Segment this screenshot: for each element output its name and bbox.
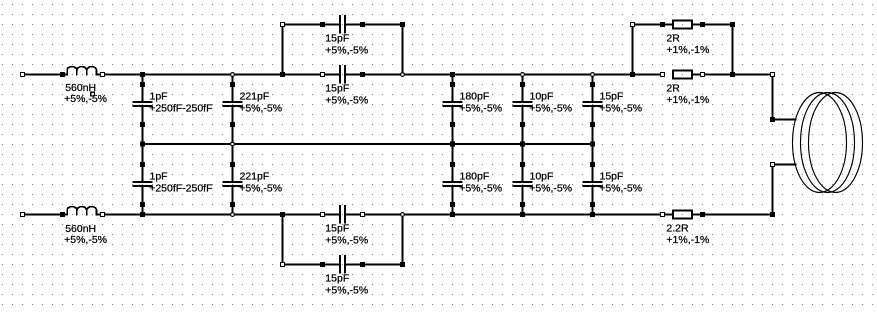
capacitor C13 15pF plates (on bottom rail) [339, 205, 341, 224]
svg-text:+5%,-5%: +5%,-5% [325, 235, 368, 247]
pin L1 right [101, 73, 105, 77]
pin C5 right [360, 72, 365, 77]
svg-text:2.2R: 2.2R [666, 222, 689, 234]
capacitor C8 221pF lead bottom [232, 187, 234, 215]
svg-text:180pF: 180pF [460, 170, 490, 182]
pin R2 left [660, 22, 665, 27]
capacitor C2 221pF plates [223, 101, 243, 103]
svg-text:2R: 2R [666, 82, 680, 94]
wire bottom branch right riser [402, 215, 404, 265]
wire bottom branch left riser [282, 215, 284, 265]
pin C1 top [140, 82, 145, 87]
inductor L1 560nH [63, 67, 103, 75]
pin C2 top [230, 82, 235, 87]
wire top branch right riser [402, 25, 404, 75]
node bottom rail / C8 [231, 213, 235, 217]
pin C4 top [520, 82, 525, 87]
junction bottom rail / C12 [590, 212, 595, 217]
capacitor C7 1pF lead bottom [142, 187, 144, 215]
junction bottom rail / C10 [520, 212, 525, 217]
wire to speaker top riser [772, 75, 774, 120]
node top rail / C2 [231, 73, 235, 77]
capacitor C6 15pF plates (top branch) [339, 15, 341, 34]
wire top rail: L1 to C5 plate [103, 74, 340, 76]
junction top rail / C3 [450, 72, 455, 77]
capacitor C5 15pF plates (on top rail) [339, 65, 341, 84]
svg-text:221pF: 221pF [240, 90, 270, 102]
svg-text:10pF: 10pF [530, 170, 554, 182]
svg-text:+1%,-1%: +1%,-1% [666, 234, 709, 246]
wire bottom rail: terminal to L2 [23, 214, 63, 216]
wire C1 1pF to C7 1pF [142, 107, 144, 181]
wire to speaker top stub [773, 119, 797, 121]
wire top branch left [283, 24, 340, 26]
terminal node In+ [21, 73, 25, 77]
pin C12 bottom [590, 202, 595, 207]
capacitor C7 1pF plates [133, 181, 153, 183]
node top rail / C11 [591, 73, 595, 77]
svg-text:+5%,-5%: +5%,-5% [529, 183, 572, 195]
capacitor C9 180pF lead bottom [452, 187, 454, 215]
pin R3 right [700, 212, 705, 217]
wire bottom rail: C13 to R3 [346, 214, 672, 216]
wire resistor branch right riser [732, 25, 734, 75]
svg-text:2R: 2R [666, 32, 680, 44]
svg-text:221pF: 221pF [240, 170, 270, 182]
wire resistor branch top right [693, 24, 733, 26]
capacitor C3 180pF lead top [452, 75, 454, 102]
svg-text:15pF: 15pF [325, 83, 349, 95]
capacitor C10 10pF lead bottom [522, 187, 524, 215]
svg-text:15pF: 15pF [325, 223, 349, 235]
capacitor C12 15pF lead bottom [592, 187, 594, 215]
junction node top rail / C1 [140, 72, 145, 77]
junction bottom branch / rail [280, 212, 285, 217]
corner R branch left [631, 23, 635, 27]
svg-text:+5%,-5%: +5%,-5% [325, 45, 368, 57]
corner bottom branch right [400, 262, 405, 267]
svg-text:+5%,-5%: +5%,-5% [239, 183, 282, 195]
pin C3 top [450, 82, 455, 87]
resistor R1 2R body (on top rail) [673, 71, 692, 79]
pin R1 left [661, 73, 665, 77]
capacitor C1 1pF lead top [142, 75, 144, 102]
junction middle line / C11-C12 [590, 142, 595, 147]
svg-text:+5%,-5%: +5%,-5% [239, 103, 282, 115]
capacitor C14 15pF plates (bottom branch) [339, 255, 341, 274]
wire top rail: terminal to L1 [23, 74, 63, 76]
capacitor C10 10pF plates [513, 181, 533, 183]
pin R1 right [701, 73, 705, 77]
capacitor C11 15pF plates [583, 101, 603, 103]
wire C4 10pF to C10 10pF [522, 107, 524, 181]
pin C8 top [230, 162, 235, 167]
wire top rail: C5 plate to R1 pin [346, 74, 663, 76]
wire resistor branch top left [633, 24, 673, 26]
pin C6 right [360, 22, 365, 27]
wire top rail: R1 to corner [693, 74, 773, 76]
terminal node In- [21, 213, 25, 217]
pin L2 right [101, 213, 105, 217]
wire C3 180pF to C9 180pF [452, 107, 454, 181]
pin C12 top [590, 162, 595, 167]
svg-text:+5%,-5%: +5%,-5% [325, 285, 368, 297]
pin C9 top [450, 162, 455, 167]
svg-text:1pF: 1pF [150, 170, 168, 182]
corner bottom branch left [281, 263, 285, 267]
wire C2 221pF to C8 221pF [232, 107, 234, 181]
junction middle line / C1-C7 [140, 142, 145, 147]
pin C7 bottom [140, 202, 145, 207]
capacitor C1 1pF plates [133, 101, 153, 103]
node top rail / C4 [521, 73, 525, 77]
capacitor C8 221pF plates [223, 181, 243, 183]
capacitor C3 180pF plates [443, 101, 463, 103]
capacitor C9 180pF plates [443, 181, 463, 183]
capacitor C11 15pF lead top [592, 75, 594, 102]
wire C11 15pF to C12 15pF [592, 107, 594, 181]
capacitor C12 15pF plates [583, 181, 603, 183]
wire middle line [143, 143, 593, 145]
node top rail / branch right [401, 73, 405, 77]
pin C4 bottom [520, 122, 525, 127]
pin C7 top [140, 162, 145, 167]
resistor R3 2.2R body (bottom rail) [673, 211, 692, 219]
svg-text:+5%,-5%: +5%,-5% [64, 93, 107, 105]
junction middle line / C3-C9 [450, 142, 455, 147]
corner bottom rail right [770, 212, 775, 217]
svg-text:+1%,-1%: +1%,-1% [666, 94, 709, 106]
wire to speaker bottom stub [773, 164, 797, 166]
svg-text:+5%,-5%: +5%,-5% [599, 103, 642, 115]
corner R branch right [730, 22, 735, 27]
resistor R2 2R body (branch) [673, 21, 692, 29]
capacitor C4 10pF plates [513, 101, 533, 103]
pin R2 right [700, 22, 705, 27]
corner top branch left [281, 23, 285, 27]
junction top branch / rail [280, 72, 285, 77]
pin C2 bottom [230, 122, 235, 127]
capacitor C2 221pF lead top [232, 75, 234, 102]
junction bottom rail / C9 [450, 212, 455, 217]
svg-text:15pF: 15pF [600, 170, 624, 182]
wire top branch right [346, 24, 403, 26]
junction middle line / C4-C10 [520, 142, 525, 147]
pin SPK1 bottom [771, 163, 775, 167]
corner top rail right [771, 73, 775, 77]
wire bottom branch right [346, 264, 403, 266]
pin C13 left [321, 213, 325, 217]
pin L2 left [60, 212, 65, 217]
svg-text:15pF: 15pF [325, 33, 349, 45]
svg-text:10pF: 10pF [530, 90, 554, 102]
pin C10 top [520, 162, 525, 167]
svg-text:+5%,-5%: +5%,-5% [325, 95, 368, 107]
pin SPK1 top [770, 117, 775, 122]
wire resistor branch left riser [632, 25, 634, 75]
pin C11 bottom [590, 122, 595, 127]
svg-text:+250fF-250fF: +250fF-250fF [149, 103, 212, 115]
wire bottom branch left [283, 264, 340, 266]
svg-text:+5%,-5%: +5%,-5% [459, 103, 502, 115]
pin C8 bottom [230, 202, 235, 207]
svg-text:+5%,-5%: +5%,-5% [599, 183, 642, 195]
svg-text:+5%,-5%: +5%,-5% [529, 103, 572, 115]
node middle line / C2-C8 [231, 142, 235, 146]
pin C1 bottom [140, 122, 145, 127]
pin C14 right [360, 262, 365, 267]
pin R3 left [661, 213, 665, 217]
speaker SPK1 coil [793, 93, 863, 193]
svg-text:+5%,-5%: +5%,-5% [64, 234, 107, 246]
svg-text:+5%,-5%: +5%,-5% [459, 183, 502, 195]
inductor L2 560nH [63, 207, 103, 215]
junction R branch left / rail [630, 72, 635, 77]
capacitor C4 10pF lead top [522, 75, 524, 102]
junction bottom rail / C7 [140, 212, 145, 217]
pin C14 left [320, 262, 325, 267]
pin C9 bottom [450, 202, 455, 207]
svg-text:180pF: 180pF [460, 90, 490, 102]
wire bottom rail: R3 to corner [693, 214, 773, 216]
pin L1 left [60, 72, 65, 77]
junction R branch right / rail [730, 72, 735, 77]
anchor marker L1 label [91, 92, 95, 96]
wire to speaker bottom riser [772, 165, 774, 215]
pin C11 top [590, 82, 595, 87]
svg-text:1pF: 1pF [150, 90, 168, 102]
pin C6 left [320, 22, 325, 27]
pin C5 left [321, 73, 325, 77]
pin C13 right [361, 213, 365, 217]
svg-text:15pF: 15pF [325, 273, 349, 285]
corner top branch right [400, 22, 405, 27]
pin C10 bottom [520, 202, 525, 207]
svg-text:15pF: 15pF [600, 90, 624, 102]
node bottom rail / branch right [401, 213, 405, 217]
svg-text:+250fF-250fF: +250fF-250fF [149, 183, 212, 195]
wire top branch left riser [282, 25, 284, 75]
wire bottom rail: L2 to C13 plate [103, 214, 340, 216]
pin C3 bottom [450, 122, 455, 127]
svg-text:+1%,-1%: +1%,-1% [666, 44, 709, 56]
